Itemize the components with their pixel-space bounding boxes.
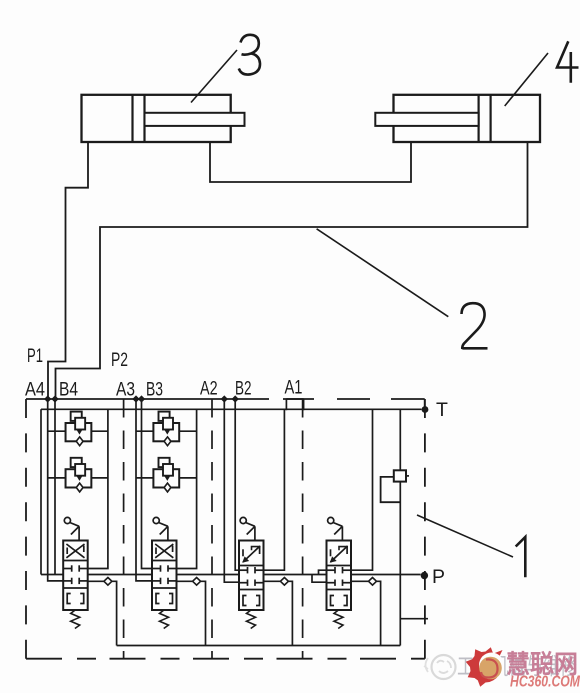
svg-text:T: T (436, 399, 448, 421)
node B4 junction dot (52, 396, 58, 402)
section 1 right loop line into valve 1 (350, 409, 373, 570)
valve 4 bottom cell brackets (67, 594, 71, 604)
check/relief valve CV3a pilot box (159, 412, 170, 421)
valve 4 cell divider lower (63, 587, 87, 589)
valve 2 return spring (247, 610, 256, 629)
check valve CV4a bottom diamond (76, 437, 83, 446)
valve 1 top cell diagonal arrow (331, 546, 348, 562)
svg-text:P2: P2 (111, 349, 128, 371)
valve 3 bottom cell brackets (156, 594, 160, 604)
valve 1 centre cell lower port marks (327, 582, 336, 584)
pipe P2 (cylinder 4 right port to valve port B4) (56, 142, 528, 397)
valve 3 top cell left tick (155, 548, 157, 555)
check/relief valve CV3a outer box (153, 423, 179, 441)
valve 3 centre cell upper port marks (152, 568, 161, 570)
node A4 junction dot (45, 396, 51, 402)
main relief valve body box (381, 477, 401, 502)
node A2 junction dot (221, 396, 227, 402)
valve 2 cell divider lower (239, 589, 264, 591)
section 4 drain diamond (104, 578, 112, 586)
node T junction dot (422, 406, 429, 413)
valve 1 top cell right tick (346, 547, 348, 554)
section 4 upper check-valve through line (48, 430, 108, 432)
dashed enclosure bottom border (26, 658, 425, 660)
section 4 outer feed line down to pressure bus (40, 409, 42, 574)
valve 4 operating lever (64, 517, 70, 523)
relief valve right nub (406, 475, 409, 477)
hydraulic cylinder 4 body (394, 95, 541, 142)
valve 3 centre cell lower port marks (152, 580, 161, 582)
port A1 right stub (303, 399, 305, 410)
section 4 lower check-valve through line (48, 477, 108, 479)
valve 2 centre cell lower port marks (239, 582, 248, 584)
svg-text:B4: B4 (59, 379, 78, 401)
valve 1 bottom cell brackets (331, 596, 335, 606)
dashed divider between section 2 and 1 (302, 399, 304, 659)
directional control valve 1 body (327, 541, 352, 611)
cylinder 4 piston left line (478, 95, 480, 142)
label 4 (hand drawn digit) (557, 41, 579, 83)
section 4 drain drop line (112, 581, 117, 645)
label 2 (hand drawn digit) (462, 303, 488, 349)
port A1 top link (286, 398, 303, 400)
svg-text:A2: A2 (200, 378, 218, 400)
valve 2 bottom cell brackets (243, 596, 247, 606)
section 3 upper check-valve through line (136, 430, 197, 432)
valve 1 right port to drain diamond (351, 580, 369, 582)
dashed enclosure left border (25, 399, 27, 659)
dashed divider between section 4 and 3 (123, 399, 125, 659)
svg-text:B2: B2 (235, 378, 252, 400)
node B3 junction dot (138, 396, 144, 402)
valve 4 return spring (71, 610, 80, 629)
port A1 left stub (285, 399, 287, 410)
cylinder 4 piston right line (490, 95, 492, 142)
valve 4 right port to drain diamond (88, 580, 104, 582)
valve 3 right port to drain diamond (177, 580, 193, 582)
section 3 lower check-valve through line (136, 477, 197, 479)
svg-text:P1: P1 (27, 345, 43, 367)
valve 2 operating lever (240, 517, 246, 523)
corner of top border down to node T (424, 399, 426, 407)
check/relief valve CV4b pilot box (71, 458, 82, 467)
cylinder 3 piston right line (143, 95, 145, 142)
node B2 junction dot (232, 396, 238, 402)
valve 3 top cell crossed arrows (155, 544, 173, 558)
pipe P1 (cylinder 3 left port to valve port A4) (48, 142, 88, 397)
check/relief valve CV3a inner square (163, 418, 173, 430)
valve 3 return spring (160, 610, 169, 629)
valve 4 centre cell lower port marks (63, 580, 71, 582)
section 2 right loop line into valve 2 (262, 409, 284, 570)
cylinder 3 rod (145, 113, 245, 126)
node P junction dot (421, 572, 428, 579)
svg-text:A3: A3 (116, 379, 135, 401)
port A2 line down to valve 2 (224, 399, 241, 582)
pressure bus line to node P (41, 574, 421, 576)
valve 4 cell divider upper (63, 560, 87, 562)
cylinder 3 piston left line (131, 95, 133, 142)
node A3 junction dot (133, 396, 139, 402)
port B3 line down to valve 3 (142, 399, 155, 569)
main relief valve pilot square (394, 470, 406, 481)
svg-text:P: P (432, 566, 445, 588)
check valve CV3b poppet triangle (165, 476, 170, 480)
valve 2 top cell right tick (259, 547, 261, 554)
valve 3 cell divider lower (152, 587, 177, 589)
section 2 drain drop line (288, 581, 292, 645)
valve 4 centre cell upper port marks (63, 568, 71, 570)
dashed divider between section 3 and 2 (211, 399, 213, 659)
check/relief valve CV4a inner square (75, 418, 85, 430)
label 1 (hand drawn digit) (516, 537, 526, 577)
valve 2 top cell diagonal arrow (243, 546, 260, 562)
valve 1 lower left port stub (312, 575, 329, 583)
section 4 right loop line into valve 4 (86, 409, 108, 568)
valve 1 top cell left tick (330, 549, 332, 556)
top dashed enclosure border segments (283, 398, 314, 400)
check/relief valve CV4b inner square (75, 464, 85, 476)
watermark: faint grey logo ghost (424, 655, 456, 679)
valve 4 top cell left tick (66, 548, 68, 555)
valve 2 centre cell upper port marks (239, 569, 248, 571)
valve 1 top cell port bracket (339, 547, 348, 551)
check/relief valve CV3b outer box (153, 469, 179, 487)
section 3 right loop line into valve 3 (175, 409, 197, 568)
svg-text:A4: A4 (25, 379, 45, 401)
watermark: red flame logo (466, 647, 503, 687)
cylinder 4 rod (375, 113, 478, 126)
leader line to label 2 (317, 229, 449, 317)
check/relief valve CV3b pilot box (159, 458, 170, 467)
svg-text:B3: B3 (146, 379, 163, 401)
valve 4 top cell right tick (83, 546, 85, 553)
valve 1 upper left port stub (319, 570, 329, 574)
check valve CV3a poppet triangle (165, 430, 170, 434)
drain line along bottom (117, 645, 401, 647)
pipe between cylinder 3 right port and cylinder 4 left port (210, 142, 411, 182)
valve 2 top cell left tick (242, 549, 244, 556)
check/relief valve CV4a pilot box (71, 412, 82, 421)
valve 2 top cell port bracket (252, 547, 261, 551)
check/relief valve CV4a outer box (66, 423, 92, 441)
label 3 (hand drawn digit) (239, 35, 260, 75)
port B4 line down to pressure bus (54, 399, 56, 575)
check/relief valve CV3b inner square (163, 464, 173, 476)
section top bus line to node T (41, 408, 422, 410)
section 1 drain drop line (377, 581, 381, 645)
directional control valve 2 body (239, 541, 264, 611)
relief valve line down to drain (399, 482, 401, 646)
valve 3 operating lever (153, 517, 159, 523)
valve 1 cell divider upper (327, 565, 352, 567)
dashed enclosure right border (424, 399, 426, 659)
valve 1 centre cell upper port marks (327, 569, 336, 571)
check valve CV4a poppet triangle (77, 430, 82, 434)
check valve CV4b bottom diamond (76, 483, 83, 492)
check valve CV3a bottom diamond (164, 437, 171, 446)
valve 2 cell divider upper (239, 565, 264, 567)
valve 3 top cell right tick (172, 546, 174, 553)
section 3 drain drop line (201, 581, 206, 645)
leader line to label 3 (191, 50, 237, 103)
top rail (tank return line T) (26, 398, 269, 400)
hydraulic cylinder 3 body (82, 95, 231, 142)
check valve CV4b poppet triangle (77, 476, 82, 480)
valve 2 right port to drain diamond (264, 580, 281, 582)
port A4 line down to valve 4 (48, 399, 65, 581)
directional control valve 4 body (63, 541, 87, 611)
valve 1 operating lever (328, 517, 334, 523)
port B2 line down to valve 2 (235, 399, 241, 570)
line from node T down to main relief valve (399, 409, 401, 470)
svg-text:HC360.COM: HC360.COM (510, 674, 580, 691)
section 3 drain diamond (193, 578, 201, 586)
valve 4 top cell crossed arrows (66, 544, 84, 558)
check/relief valve CV4b outer box (66, 469, 92, 487)
valve 1 return spring (334, 610, 343, 629)
svg-text:A1: A1 (285, 377, 303, 399)
leader line to label 4 (505, 53, 548, 106)
leader line to label 1 (417, 515, 513, 557)
valve 3 cell divider upper (152, 560, 177, 562)
port A3 line down to valve 3 (136, 399, 154, 581)
section 2 drain diamond (280, 578, 288, 586)
directional control valve 3 body (152, 541, 177, 611)
check valve CV3b bottom diamond (164, 483, 171, 492)
tank link crossing right border (400, 618, 428, 620)
section 1 drain diamond (369, 578, 377, 586)
valve 1 cell divider lower (327, 589, 352, 591)
